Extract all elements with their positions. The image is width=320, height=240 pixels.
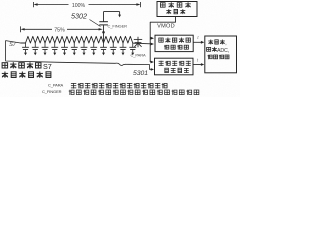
note: 图中示出为S7 开关处于接通 bbox=[2, 63, 8, 68]
dimension line 100% (full row length) bbox=[33, 2, 35, 7]
block: channel A force voltage / measure cap (强制电压，测量电容) bbox=[155, 35, 193, 51]
distributed capacitors C_PARA to display (12x cap+down arrow) bbox=[25, 43, 27, 47]
capacitor C_FINGER (finger to row) bbox=[103, 25, 105, 43]
block: channel B force voltage / measure cap (强制电压，测量电容) bbox=[155, 58, 194, 75]
character 末 (near end) on wire bbox=[137, 37, 139, 47]
resistor ladder (distributed row resistance) bbox=[21, 36, 134, 43]
wire near-end to channel A bbox=[133, 42, 150, 45]
block: modulation signal generator (调制信号发生器) bbox=[157, 2, 197, 17]
arrow channel B output + label bbox=[193, 64, 202, 66]
dimension line 75% (tap position) bbox=[20, 26, 22, 32]
wire far-end loop (left end of row to channel B) bbox=[6, 41, 115, 64]
arrow channel A output + label bbox=[193, 41, 201, 43]
block: sum and difference, demod ADC, signal processing (和与差,解调ADC,信号处理) bbox=[205, 36, 237, 73]
scan noise overlay bbox=[0, 0, 1, 1]
net VMOD (modulation drive to both channels) bbox=[150, 17, 175, 63]
